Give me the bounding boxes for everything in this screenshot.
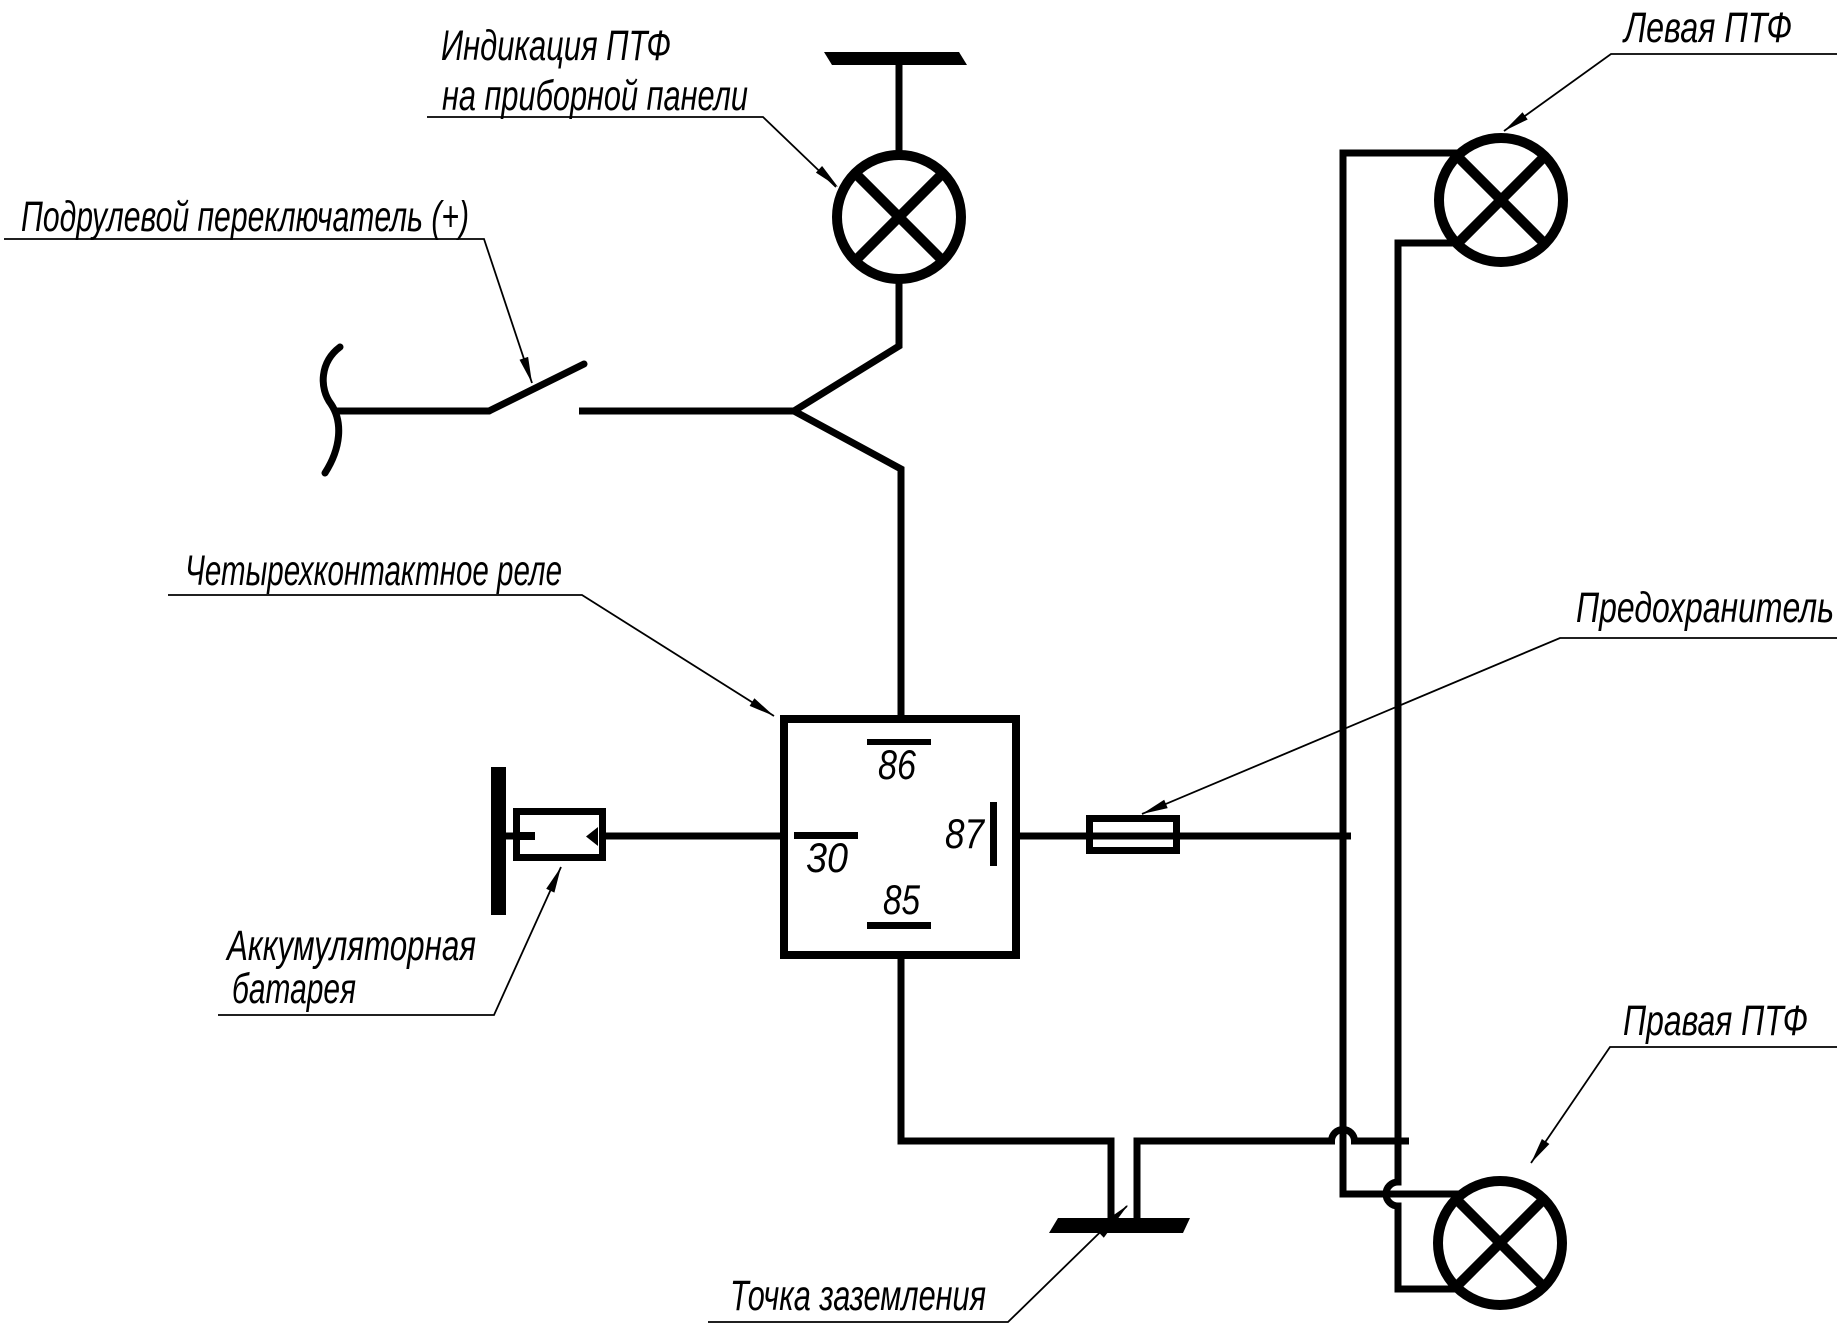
switch SA (подрулевой переключатель) <box>323 347 584 473</box>
svg-text:86: 86 <box>878 741 917 788</box>
svg-text:Аккумуляторная: Аккумуляторная <box>225 922 476 970</box>
label: Предохранитель <box>1142 584 1837 814</box>
relay pin 86 <box>867 739 931 745</box>
wire ground point to net B, hop over net A <box>1137 1130 1409 1221</box>
label: Левая ПТФ <box>1504 4 1837 131</box>
svg-text:батарея: батарея <box>232 965 356 1013</box>
wire relay pin 87 to fuse to node A <box>1019 833 1351 840</box>
net A +12V feed: left lamp top, down to fuse tee and right lamp <box>1343 153 1460 1194</box>
fuse FU (предохранитель) <box>1090 819 1177 851</box>
indicator lamp HL3 (Индикация ПТФ) <box>837 155 961 279</box>
wire ground bar to indicator lamp <box>896 64 903 152</box>
relay pin 85 <box>867 922 931 929</box>
svg-text:Четырехконтактное реле: Четырехконтактное реле <box>185 547 562 595</box>
svg-text:Подрулевой переключатель (+): Подрулевой переключатель (+) <box>21 193 469 241</box>
svg-text:85: 85 <box>883 876 921 923</box>
wire battery to relay pin 30 <box>605 833 781 840</box>
svg-text:на приборной панели: на приборной панели <box>442 72 748 120</box>
wire fork node down to relay pin 86 <box>794 411 901 717</box>
wire switch to fork node <box>579 408 795 415</box>
battery connector GB (аккумуляторная батарея) <box>505 833 514 840</box>
right fog lamp HL2 (Правая ПТФ) <box>1438 1181 1562 1305</box>
left fog lamp HL1 (Левая ПТФ) <box>1439 138 1563 262</box>
chassis ground (instrument panel) <box>824 52 967 65</box>
ground point bar (точка заземления) <box>1049 1218 1190 1233</box>
label: Аккумуляторная батарея <box>218 867 561 1015</box>
svg-text:Левая ПТФ: Левая ПТФ <box>1622 4 1792 52</box>
relay pin 30 <box>794 832 858 839</box>
relay pin 87 <box>990 802 997 866</box>
label: Индикация ПТФ на приборной панели <box>427 22 838 187</box>
battery plate (hatched bar) <box>491 767 506 915</box>
relay K1 (четырехконтактное реле) <box>784 719 1016 955</box>
svg-text:Правая ПТФ: Правая ПТФ <box>1623 997 1808 1045</box>
svg-text:Предохранитель: Предохранитель <box>1576 584 1834 632</box>
label: Правая ПТФ <box>1531 997 1837 1163</box>
wire relay pin 85 to ground point <box>901 955 1111 1220</box>
net B lamp return: left lamp bottom down, hop over net A branch, to right lamp bottom <box>1386 243 1457 1289</box>
svg-text:87: 87 <box>945 810 985 857</box>
label: Подрулевой переключатель (+) <box>4 193 532 383</box>
wire lamp to switch fork <box>794 282 899 411</box>
label: Точка заземления <box>708 1205 1128 1322</box>
svg-text:30: 30 <box>806 834 849 881</box>
svg-text:Точка заземления: Точка заземления <box>730 1272 986 1320</box>
label: Четырехконтактное реле <box>168 547 774 716</box>
svg-text:Индикация ПТФ: Индикация ПТФ <box>441 22 671 70</box>
